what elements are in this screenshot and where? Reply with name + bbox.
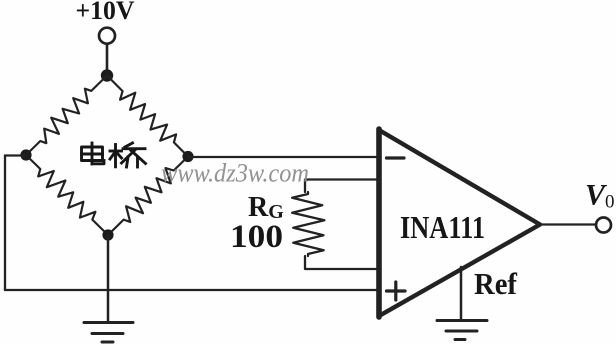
bridge label 电桥 — [82, 143, 146, 167]
wire Ref pin to ground — [460, 267, 463, 320]
bridge resistor bottom-right arm — [108, 157, 188, 236]
svg-text:+10V: +10V — [76, 0, 135, 25]
bridge resistor bottom-left arm — [26, 155, 108, 235]
wire right node to op-amp inverting input — [188, 156, 380, 158]
svg-text:Ref: Ref — [474, 266, 518, 301]
node top (bridge excitation +) — [101, 69, 113, 81]
output terminal V0 — [596, 218, 611, 233]
svg-text:100: 100 — [230, 219, 283, 255]
op-amp U1 INA111 triangle — [379, 130, 540, 316]
wire from +10V terminal to bridge top node — [106, 45, 109, 73]
wire RG bottom to op-amp gain pin 2 — [305, 256, 380, 269]
wire RG top to op-amp gain pin 1 — [305, 180, 380, 193]
op-amp non-inverting input marker — [387, 282, 406, 300]
node left (bridge output -) — [20, 149, 31, 160]
wire bottom rail to op-amp non-inverting input — [5, 289, 380, 291]
wire left rail down — [4, 156, 6, 291]
svg-text:0: 0 — [605, 192, 615, 213]
resistor RG — [292, 192, 324, 256]
wire left node to left rail — [5, 154, 26, 156]
op-amp inverting input marker — [387, 156, 405, 159]
wire op-amp output to V0 terminal — [540, 223, 595, 225]
node right (bridge output +) — [182, 151, 193, 162]
node bottom (bridge excitation -) — [102, 229, 113, 240]
bridge resistor top-right arm — [107, 76, 188, 157]
bridge resistor top-left arm — [26, 76, 107, 156]
wire bottom node down to ground — [107, 235, 110, 322]
ground (Ref) — [437, 321, 487, 340]
svg-text:www.dz3w.com: www.dz3w.com — [161, 159, 309, 188]
ground (bridge) — [84, 323, 133, 343]
svg-text:INA111: INA111 — [400, 209, 485, 245]
power terminal +10V — [99, 28, 115, 44]
